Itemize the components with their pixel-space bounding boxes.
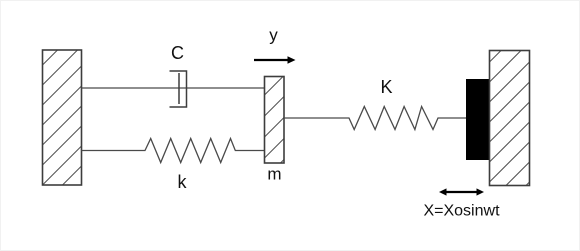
- mass m (hatched block): [265, 77, 285, 164]
- displacement arrow (double headed, base motion): [439, 188, 484, 195]
- svg-text:k: k: [178, 172, 188, 192]
- left wall: [43, 50, 82, 185]
- wire: damper rod from left wall to mass: [82, 87, 265, 89]
- base block (black, excited base): [466, 79, 490, 160]
- svg-text:X=Xosinwt: X=Xosinwt: [423, 203, 500, 220]
- svg-text:m: m: [267, 165, 281, 184]
- svg-text:C: C: [171, 43, 184, 63]
- right wall: [490, 51, 530, 186]
- damper C (dashpot): [170, 71, 187, 107]
- svg-text:y: y: [269, 26, 278, 45]
- spring k (with connecting rods): [82, 139, 265, 163]
- spring K (with connecting rods): [284, 107, 466, 130]
- svg-text:K: K: [380, 77, 392, 97]
- arrow y (displacement of mass): [254, 56, 296, 63]
